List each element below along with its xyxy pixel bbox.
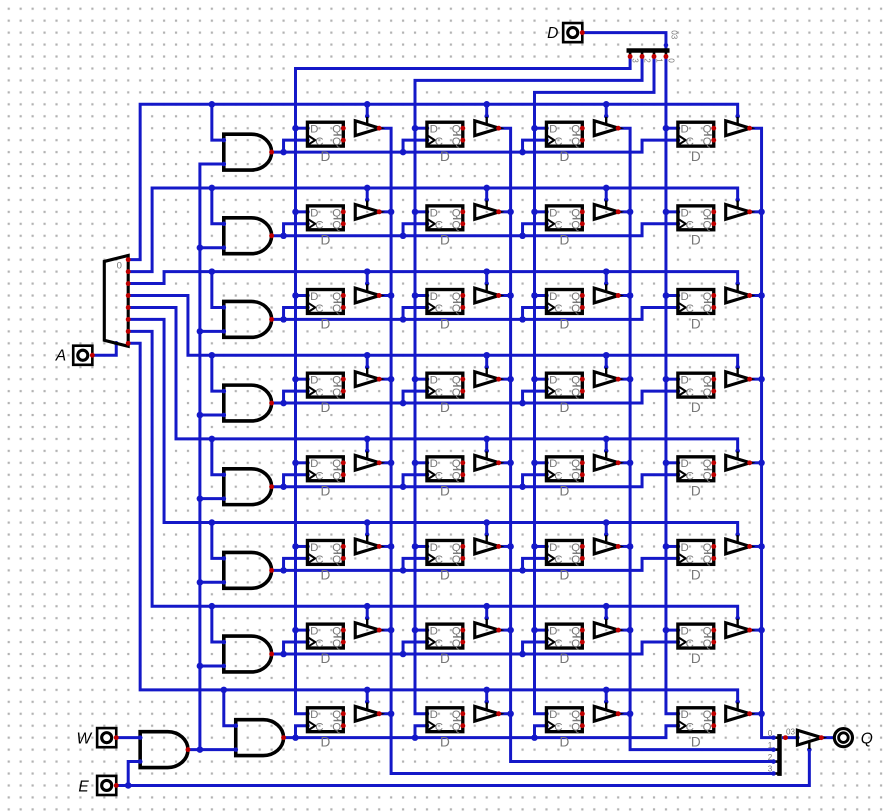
wire: row 7 select stub to AND gate — [212, 606, 226, 644]
svg-text:Q: Q — [452, 721, 461, 733]
svg-text:D: D — [440, 484, 450, 499]
wire: row 2 col 2 buffer enable stub — [484, 188, 489, 202]
splitter S1 (D input fan-out, bits 3..0) — [627, 30, 679, 63]
wire: row 7 write clock net — [272, 640, 681, 658]
wire: row 7 col 2 buffer enable stub — [484, 606, 489, 620]
svg-text:D: D — [681, 458, 689, 470]
svg-text:Q: Q — [332, 721, 341, 733]
svg-text:Q: Q — [861, 731, 873, 748]
svg-text:D: D — [549, 207, 557, 219]
svg-text:Q: Q — [452, 136, 461, 148]
svg-text:03: 03 — [669, 30, 678, 40]
svg-text:D: D — [440, 651, 450, 666]
svg-text:Q: Q — [703, 124, 712, 136]
wire: decoder output 4 / row 5 enable bus — [128, 307, 740, 453]
svg-text:Q: Q — [332, 458, 341, 470]
wire: row 5 select stub to AND gate — [212, 439, 226, 477]
tri-state buffer row 1 col 4 — [726, 117, 752, 136]
svg-text:C: C — [686, 136, 694, 148]
svg-text:C: C — [554, 554, 562, 566]
D flip-flop row 5 col 4 — [678, 457, 716, 499]
svg-text:C: C — [435, 220, 443, 232]
svg-text:D: D — [691, 316, 701, 331]
wire: decoder output 1 / row 2 enable bus — [128, 185, 740, 272]
wire: column 3 output bus to splitter bit 1 — [618, 128, 773, 749]
wire: decoder output 3 / row 4 enable bus — [128, 295, 740, 369]
tri-state buffer row 6 col 1 — [355, 535, 381, 554]
svg-text:D: D — [691, 484, 701, 499]
wire: row 7 col 3 buffer enable stub — [604, 606, 609, 620]
svg-text:D: D — [559, 651, 569, 666]
svg-text:D: D — [559, 735, 569, 750]
wire: row 5 write clock net — [272, 472, 681, 490]
wire: row 6 col 2 buffer enable stub — [484, 523, 489, 537]
svg-text:Q: Q — [571, 124, 580, 136]
svg-text:Q: Q — [452, 458, 461, 470]
svg-text:D: D — [691, 233, 701, 248]
svg-text:D: D — [559, 400, 569, 415]
svg-text:Q: Q — [571, 626, 580, 638]
D flip-flop row 6 col 3 — [546, 540, 584, 582]
svg-text:3: 3 — [768, 765, 773, 774]
wire: decoder output 5 / row 6 enable bus — [128, 319, 740, 536]
svg-text:C: C — [435, 638, 443, 650]
wire: decoder output 6 / row 7 enable bus — [128, 331, 740, 620]
svg-text:Q: Q — [703, 626, 712, 638]
svg-text:C: C — [435, 554, 443, 566]
svg-text:D: D — [549, 375, 557, 387]
svg-text:D: D — [681, 626, 689, 638]
AND gate row 3 write select — [222, 301, 275, 337]
svg-text:Q: Q — [703, 207, 712, 219]
wire: row 8 col 3 buffer enable stub — [604, 690, 609, 704]
svg-text:Q: Q — [332, 626, 341, 638]
D flip-flop row 4 col 1 — [307, 373, 345, 415]
svg-text:A: A — [55, 348, 66, 365]
svg-text:C: C — [435, 471, 443, 483]
svg-text:C: C — [554, 638, 562, 650]
svg-text:E: E — [78, 778, 89, 795]
wire: column 4 output bus to splitter bit 0 — [750, 128, 774, 737]
tri-state buffer row 2 col 3 — [594, 200, 620, 219]
svg-text:C: C — [554, 721, 562, 733]
wire: row 6 col 1 buffer enable stub — [365, 523, 370, 537]
svg-text:C: C — [554, 303, 562, 315]
D flip-flop row 1 col 4 — [678, 122, 716, 164]
wire: write enable line (W AND E output to row AND gates) — [188, 162, 238, 753]
svg-text:D: D — [430, 542, 438, 554]
wire: E net (E pin to output buffer enable and W-AND) — [116, 747, 811, 788]
D flip-flop row 8 col 4 — [678, 708, 716, 750]
tri-state buffer row 1 col 2 — [475, 117, 501, 136]
svg-text:Q: Q — [332, 709, 341, 721]
D flip-flop row 5 col 3 — [546, 457, 584, 499]
wire: data bit 3 line to column 1 — [292, 56, 630, 716]
AND gate row 4 write select — [222, 385, 275, 421]
svg-text:D: D — [440, 316, 450, 331]
svg-text:0: 0 — [117, 261, 122, 272]
svg-text:Q: Q — [571, 220, 580, 232]
D flip-flop row 6 col 4 — [678, 540, 716, 582]
svg-text:C: C — [435, 721, 443, 733]
svg-text:Q: Q — [571, 721, 580, 733]
wire: W pin to AND gate — [116, 735, 142, 740]
svg-text:Q: Q — [332, 136, 341, 148]
svg-text:D: D — [549, 626, 557, 638]
decoder U1 (3-to-8 row select) — [104, 255, 130, 346]
D flip-flop row 7 col 2 — [427, 624, 465, 666]
input pin A — [55, 346, 95, 365]
D flip-flop row 2 col 1 — [307, 206, 345, 248]
svg-text:C: C — [686, 554, 694, 566]
tri-state buffer row 4 col 2 — [475, 368, 501, 387]
svg-text:3: 3 — [631, 58, 640, 63]
svg-text:03: 03 — [786, 728, 796, 737]
wire: row 8 select stub to AND gate — [224, 690, 238, 728]
svg-text:2: 2 — [643, 58, 652, 63]
tri-state buffer row 3 col 3 — [594, 284, 620, 303]
wire: row 3 col 1 buffer enable stub — [365, 272, 370, 286]
svg-text:Q: Q — [703, 471, 712, 483]
tri-state buffer row 1 col 1 — [355, 117, 381, 136]
AND gate row 6 write select — [222, 552, 275, 588]
svg-text:D: D — [430, 458, 438, 470]
svg-text:Q: Q — [703, 709, 712, 721]
svg-text:D: D — [559, 316, 569, 331]
output pin Q — [834, 729, 872, 748]
svg-text:D: D — [681, 291, 689, 303]
svg-text:Q: Q — [332, 471, 341, 483]
svg-text:C: C — [315, 136, 323, 148]
AND gate row 7 write select — [222, 636, 275, 672]
svg-text:D: D — [310, 709, 318, 721]
svg-text:D: D — [320, 484, 330, 499]
svg-text:Q: Q — [452, 291, 461, 303]
svg-text:C: C — [554, 471, 562, 483]
svg-text:D: D — [691, 735, 701, 750]
svg-text:Q: Q — [332, 207, 341, 219]
svg-text:W: W — [76, 731, 92, 748]
D flip-flop row 2 col 4 — [678, 206, 716, 248]
svg-text:1: 1 — [768, 741, 773, 750]
svg-text:D: D — [310, 626, 318, 638]
wire: decoder output 7 / row 8 enable bus — [128, 343, 740, 704]
svg-text:D: D — [559, 484, 569, 499]
input pin E — [78, 776, 118, 796]
tri-state buffer row 5 col 1 — [355, 451, 381, 470]
svg-text:Q: Q — [571, 471, 580, 483]
wire: row 1 select stub to AND gate — [212, 104, 226, 142]
D flip-flop row 1 col 1 — [307, 122, 345, 164]
svg-text:D: D — [320, 316, 330, 331]
svg-text:D: D — [430, 626, 438, 638]
svg-text:Q: Q — [571, 207, 580, 219]
svg-text:Q: Q — [332, 303, 341, 315]
svg-text:D: D — [440, 149, 450, 164]
AND gate U-WE (W AND E) — [138, 732, 191, 768]
tri-state buffer row 5 col 3 — [594, 451, 620, 470]
svg-text:Q: Q — [703, 375, 712, 387]
svg-text:D: D — [559, 233, 569, 248]
svg-text:Q: Q — [571, 709, 580, 721]
svg-text:Q: Q — [703, 303, 712, 315]
svg-text:Q: Q — [703, 387, 712, 399]
tri-state buffer row 7 col 3 — [594, 619, 620, 638]
wire: column 1 output bus to splitter bit 3 — [379, 128, 773, 773]
wire: row 8 col 2 buffer enable stub — [484, 690, 489, 704]
wire: row 2 write clock net — [272, 222, 681, 240]
svg-text:Q: Q — [332, 387, 341, 399]
svg-text:Q: Q — [332, 638, 341, 650]
svg-text:D: D — [549, 458, 557, 470]
svg-text:Q: Q — [452, 207, 461, 219]
wire: D pin to splitter — [582, 33, 668, 49]
svg-text:C: C — [315, 554, 323, 566]
svg-text:C: C — [686, 387, 694, 399]
wire: decoder output 2 / row 3 enable bus — [128, 268, 740, 286]
AND gate row 8 write select — [233, 720, 286, 756]
svg-text:D: D — [310, 291, 318, 303]
tri-state buffer row 6 col 3 — [594, 535, 620, 554]
svg-text:D: D — [320, 149, 330, 164]
D flip-flop row 7 col 4 — [678, 624, 716, 666]
svg-text:C: C — [315, 471, 323, 483]
svg-text:Q: Q — [452, 303, 461, 315]
wire: splitter to output buffer — [782, 735, 800, 740]
wire: row 1 col 2 buffer enable stub — [484, 104, 489, 118]
D flip-flop row 1 col 3 — [546, 122, 584, 164]
svg-text:Q: Q — [703, 554, 712, 566]
svg-text:D: D — [681, 207, 689, 219]
svg-text:Q: Q — [571, 136, 580, 148]
svg-text:D: D — [549, 291, 557, 303]
D flip-flop row 3 col 2 — [427, 290, 465, 332]
svg-text:D: D — [320, 735, 330, 750]
svg-text:D: D — [681, 709, 689, 721]
D flip-flop row 4 col 3 — [546, 373, 584, 415]
wire: row 7 col 1 buffer enable stub — [365, 606, 370, 620]
svg-text:D: D — [440, 735, 450, 750]
svg-text:D: D — [440, 400, 450, 415]
D flip-flop row 2 col 3 — [546, 206, 584, 248]
D flip-flop row 4 col 2 — [427, 373, 465, 415]
svg-text:D: D — [320, 400, 330, 415]
tri-state buffer row 7 col 1 — [355, 619, 381, 638]
tri-state buffer row 3 col 4 — [726, 284, 752, 303]
D flip-flop row 2 col 2 — [427, 206, 465, 248]
svg-text:Q: Q — [332, 375, 341, 387]
svg-text:D: D — [310, 458, 318, 470]
svg-text:Q: Q — [332, 220, 341, 232]
svg-text:C: C — [554, 220, 562, 232]
svg-text:0: 0 — [768, 729, 773, 738]
svg-text:1: 1 — [655, 58, 664, 63]
tri-state buffer row 8 col 2 — [475, 702, 501, 721]
wire: row 8 col 1 buffer enable stub — [365, 690, 370, 704]
D flip-flop row 3 col 4 — [678, 290, 716, 332]
svg-text:D: D — [320, 233, 330, 248]
wire: row 3 col 2 buffer enable stub — [484, 272, 489, 286]
wire: row 5 col 1 buffer enable stub — [365, 439, 370, 453]
tri-state buffer U-OUT (output enable) — [797, 730, 823, 749]
svg-text:D: D — [559, 567, 569, 582]
svg-text:D: D — [320, 651, 330, 666]
svg-text:Q: Q — [703, 721, 712, 733]
svg-text:Q: Q — [571, 542, 580, 554]
tri-state buffer row 4 col 1 — [355, 368, 381, 387]
D flip-flop row 8 col 2 — [427, 708, 465, 750]
svg-text:Q: Q — [571, 291, 580, 303]
tri-state buffer row 8 col 1 — [355, 702, 381, 721]
svg-text:D: D — [691, 400, 701, 415]
D flip-flop row 5 col 1 — [307, 457, 345, 499]
tri-state buffer row 5 col 4 — [726, 451, 752, 470]
svg-text:Q: Q — [571, 375, 580, 387]
wire: row 3 col 3 buffer enable stub — [604, 272, 609, 286]
wire: data bit 2 line to column 2 — [412, 56, 642, 716]
D flip-flop row 7 col 1 — [307, 624, 345, 666]
wire: row 3 select stub to AND gate — [212, 272, 226, 310]
splitter S2 (output combine, bits 0..3) — [768, 728, 796, 776]
svg-text:Q: Q — [452, 471, 461, 483]
wire: output buffer to Q pin — [821, 736, 834, 739]
svg-text:Q: Q — [703, 220, 712, 232]
tri-state buffer row 7 col 2 — [475, 619, 501, 638]
D flip-flop row 1 col 2 — [427, 122, 465, 164]
svg-text:D: D — [691, 567, 701, 582]
wire: row 6 select stub to AND gate — [212, 523, 226, 561]
svg-text:D: D — [310, 124, 318, 136]
svg-text:Q: Q — [452, 626, 461, 638]
svg-text:D: D — [549, 542, 557, 554]
svg-text:C: C — [315, 387, 323, 399]
svg-text:Q: Q — [332, 542, 341, 554]
svg-text:C: C — [315, 721, 323, 733]
svg-text:Q: Q — [703, 542, 712, 554]
D flip-flop row 3 col 3 — [546, 290, 584, 332]
wire: column 2 output bus to splitter bit 2 — [499, 128, 774, 761]
AND gate row 2 write select — [222, 218, 275, 254]
svg-text:Q: Q — [452, 387, 461, 399]
tri-state buffer row 8 col 3 — [594, 702, 620, 721]
svg-text:Q: Q — [452, 375, 461, 387]
wire: decoder output 0 / row 1 enable bus — [128, 101, 740, 260]
tri-state buffer row 3 col 1 — [355, 284, 381, 303]
svg-text:D: D — [681, 124, 689, 136]
svg-text:D: D — [547, 25, 558, 42]
tri-state buffer row 4 col 4 — [726, 368, 752, 387]
tri-state buffer row 7 col 4 — [726, 619, 752, 638]
D flip-flop row 5 col 2 — [427, 457, 465, 499]
wire: row 4 col 1 buffer enable stub — [365, 355, 370, 369]
input pin W — [76, 728, 118, 748]
svg-text:C: C — [435, 303, 443, 315]
svg-text:C: C — [554, 136, 562, 148]
svg-text:D: D — [430, 207, 438, 219]
svg-text:D: D — [691, 651, 701, 666]
svg-text:Q: Q — [703, 458, 712, 470]
wire: data bit 0 line to column 4 — [663, 56, 681, 716]
svg-text:Q: Q — [332, 291, 341, 303]
svg-text:D: D — [310, 542, 318, 554]
svg-text:D: D — [430, 124, 438, 136]
tri-state buffer row 3 col 2 — [475, 284, 501, 303]
svg-text:Q: Q — [452, 124, 461, 136]
tri-state buffer row 2 col 2 — [475, 200, 501, 219]
svg-text:D: D — [549, 124, 557, 136]
svg-text:D: D — [430, 375, 438, 387]
svg-text:Q: Q — [571, 638, 580, 650]
svg-text:D: D — [440, 567, 450, 582]
D flip-flop row 8 col 1 — [307, 708, 345, 750]
svg-text:C: C — [554, 387, 562, 399]
svg-text:C: C — [686, 638, 694, 650]
wire: row 2 col 3 buffer enable stub — [604, 188, 609, 202]
wire: row 4 select stub to AND gate — [212, 355, 226, 393]
AND gate row 1 write select — [222, 134, 275, 170]
tri-state buffer row 8 col 4 — [726, 702, 752, 721]
svg-text:Q: Q — [452, 220, 461, 232]
D flip-flop row 6 col 1 — [307, 540, 345, 582]
svg-text:Q: Q — [571, 554, 580, 566]
svg-text:C: C — [686, 220, 694, 232]
svg-text:D: D — [430, 709, 438, 721]
wire: data bit 1 line to column 3 — [531, 56, 654, 716]
svg-text:D: D — [310, 207, 318, 219]
D flip-flop row 6 col 2 — [427, 540, 465, 582]
svg-text:C: C — [435, 387, 443, 399]
wire: row 2 col 1 buffer enable stub — [365, 188, 370, 202]
svg-text:Q: Q — [452, 554, 461, 566]
svg-text:C: C — [315, 303, 323, 315]
input pin D — [547, 23, 585, 42]
svg-text:Q: Q — [571, 303, 580, 315]
svg-text:Q: Q — [452, 638, 461, 650]
svg-text:D: D — [440, 233, 450, 248]
svg-text:2: 2 — [768, 753, 773, 762]
wire: row 5 col 3 buffer enable stub — [604, 439, 609, 453]
wire: row 1 col 1 buffer enable stub — [365, 104, 370, 118]
svg-text:Q: Q — [332, 124, 341, 136]
tri-state buffer row 6 col 2 — [475, 535, 501, 554]
svg-text:Q: Q — [571, 458, 580, 470]
wire: row 1 write clock net — [272, 138, 681, 156]
svg-text:C: C — [315, 220, 323, 232]
tri-state buffer row 2 col 4 — [726, 200, 752, 219]
wire: row 5 col 2 buffer enable stub — [484, 439, 489, 453]
wire: row 6 write clock net — [272, 556, 681, 574]
wire: row 4 write clock net — [272, 389, 681, 407]
D flip-flop row 8 col 3 — [546, 708, 584, 750]
svg-text:D: D — [681, 542, 689, 554]
wire: row 1 col 3 buffer enable stub — [604, 104, 609, 118]
svg-text:D: D — [430, 291, 438, 303]
wire: row 8 write clock net — [284, 723, 681, 741]
svg-text:0: 0 — [667, 58, 676, 63]
wire: row 4 col 2 buffer enable stub — [484, 355, 489, 369]
tri-state buffer row 1 col 3 — [594, 117, 620, 136]
svg-text:Q: Q — [703, 291, 712, 303]
svg-text:C: C — [315, 638, 323, 650]
svg-text:C: C — [686, 721, 694, 733]
svg-text:D: D — [549, 709, 557, 721]
wire: row 4 col 3 buffer enable stub — [604, 355, 609, 369]
wire: row 3 write clock net — [272, 305, 681, 323]
svg-text:D: D — [691, 149, 701, 164]
svg-text:Q: Q — [703, 638, 712, 650]
svg-text:C: C — [686, 303, 694, 315]
svg-text:D: D — [310, 375, 318, 387]
